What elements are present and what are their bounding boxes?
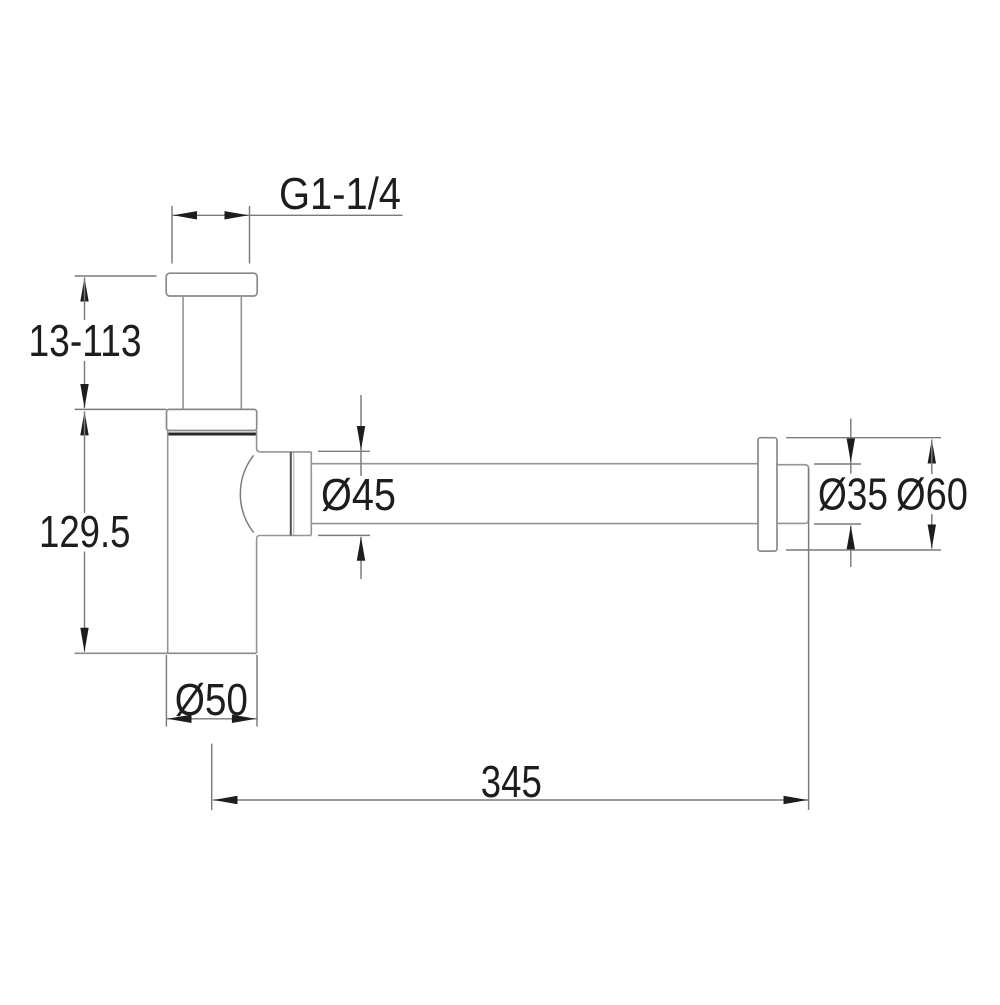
compression nut right edge: [310, 452, 312, 535]
dimension 345 : left extension line: [211, 744, 213, 810]
body left wall: [167, 431, 169, 654]
body bottom edge with extension: [75, 652, 257, 654]
wall pipe stub: [778, 465, 809, 524]
dimension D45 : top extension line: [318, 450, 370, 452]
dimension 13-113 : upper arrowhead: [80, 278, 88, 302]
dimension D50 : right arrowhead: [232, 715, 256, 723]
inlet pipe right wall: [240, 296, 242, 409]
dimension G1-1/4 : extension line right: [249, 206, 251, 264]
dimension 345 : right arrowhead: [784, 796, 808, 804]
dimension D45 : lower stem: [360, 537, 362, 579]
svg-text:G1-1/4: G1-1/4: [279, 168, 401, 219]
dimension 345 : dimension line: [213, 799, 808, 801]
dimension G1-1/4 : extension line left: [171, 206, 173, 264]
dimension 13-113 : top extension line: [75, 275, 157, 277]
body right wall lower + outlet bottom edge: [257, 536, 312, 654]
svg-text:13-113: 13-113: [29, 315, 142, 366]
svg-text:Ø60: Ø60: [896, 469, 968, 520]
dimension G1-1/4 : right arrowhead: [225, 211, 249, 219]
dimension 129.5 : lower stem: [84, 552, 86, 652]
dimension D50 : dimension line: [166, 718, 257, 720]
dimension 13-113 : lower stem: [84, 361, 86, 408]
dimension D45 : bottom extension line: [318, 534, 370, 536]
compression nut left edge (dark): [290, 452, 292, 535]
dimension D45 : lower arrowhead: [357, 537, 365, 561]
dimension D60 : lower arrowhead: [928, 525, 936, 549]
dimension D50 : left arrowhead: [168, 715, 192, 723]
svg-text:129.5: 129.5: [39, 506, 131, 557]
dimension D35 : top extension line: [814, 463, 861, 465]
dimension 13-113 : upper stem: [84, 278, 86, 321]
dimension 345 : right extension line: [808, 468, 810, 810]
dimension D60 : bottom extension line: [786, 549, 941, 551]
dimension D35 : lower arrowhead: [847, 526, 855, 550]
inlet pipe left wall: [182, 296, 184, 409]
dimension 129.5 : upper stem: [84, 411, 86, 513]
dimension 129.5 : lower arrowhead: [80, 628, 88, 652]
horizontal pipe top wall: [311, 463, 758, 465]
dimension D35 : upper arrowhead: [847, 439, 855, 463]
body top flange: [75, 408, 167, 410]
compression nut left inner shade: [293, 453, 295, 536]
dimension 129.5 : upper arrowhead: [80, 411, 88, 435]
wall flange: [758, 438, 777, 551]
body right wall upper + outlet top edge: [257, 431, 312, 452]
outlet sphere arc: [240, 455, 253, 532]
dimension D45 : upper arrowhead: [357, 426, 365, 450]
dimension D35 : upper stem: [850, 419, 852, 474]
dimension D35 : lower stem: [850, 526, 852, 568]
dimension D60 : top extension line: [786, 437, 941, 439]
dimension 345 : left arrowhead: [214, 796, 238, 804]
dimension 13-113 : lower arrowhead: [80, 384, 88, 408]
dimension D60 : upper arrowhead: [928, 440, 936, 464]
dimension D35 : bottom extension line: [814, 523, 861, 525]
dimension G1-1/4 : left arrowhead: [173, 211, 197, 219]
svg-text:Ø50: Ø50: [175, 674, 248, 725]
svg-text:Ø45: Ø45: [321, 469, 396, 520]
dimension D45 : upper stem: [360, 395, 362, 476]
dimension D60 : upper stem: [931, 440, 933, 475]
dimension D50 : left extension line: [165, 655, 167, 727]
top inlet flange: [166, 273, 257, 296]
horizontal pipe bottom wall: [311, 523, 758, 525]
seal dark line: [168, 433, 256, 436]
dimension G1-1/4 : dimension line: [172, 214, 403, 216]
svg-text:Ø35: Ø35: [818, 469, 888, 520]
dimension D60 : lower stem: [931, 514, 933, 549]
svg-text:345: 345: [481, 756, 542, 807]
dimension D50 : right extension line: [256, 655, 258, 727]
